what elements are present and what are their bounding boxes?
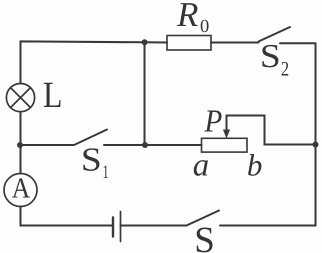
wire node B to switch S1 [21,144,75,146]
junction dot node C [142,142,148,148]
svg-text:1: 1 [103,162,109,183]
switch S1 blade [74,130,107,146]
wire bottom-right corner to switch S [220,225,316,227]
wire S1 to node C [104,144,145,146]
junction dot node A [142,39,148,45]
svg-text:S: S [260,38,281,75]
svg-text:S: S [194,220,215,253]
wire node A to resistor [145,41,168,43]
ammeter A circle [4,174,37,207]
svg-text:0: 0 [200,17,209,37]
battery short plate (-) [112,218,114,237]
junction dot node B [17,142,23,148]
svg-text:b: b [247,147,263,182]
switch S2 blade [259,27,291,42]
rheostat wiper stem [226,116,228,132]
svg-text:a: a [193,147,209,183]
battery long plate (+) [120,212,122,242]
svg-text:S: S [81,141,102,178]
svg-text:R: R [176,0,198,34]
switch S blade [187,211,220,226]
svg-text:P: P [204,103,223,139]
wire right side vertical [315,44,317,226]
resistor R0 [167,36,211,51]
wire node B to ammeter [20,145,22,174]
lamp X cross [11,88,31,108]
wire node C to rheostat [145,144,202,146]
wire node A to node C vertical [144,42,146,145]
wire battery to bottom-left corner [21,207,114,226]
rheostat P track [202,138,248,152]
wire lamp to node B [20,112,22,145]
lamp L circle [6,84,34,112]
wire S2 to top-right corner [280,42,316,44]
junction dot node D [313,142,319,148]
svg-text:A: A [12,173,30,205]
wire resistor to switch S2 [211,42,259,44]
wire top-left corner to node A [21,41,145,83]
rheostat wiper arrowhead [223,130,230,139]
svg-text:2: 2 [281,59,289,81]
svg-text:L: L [43,75,62,116]
wire wiper bracket to node D [227,116,316,145]
wire switch S to battery [121,225,187,227]
